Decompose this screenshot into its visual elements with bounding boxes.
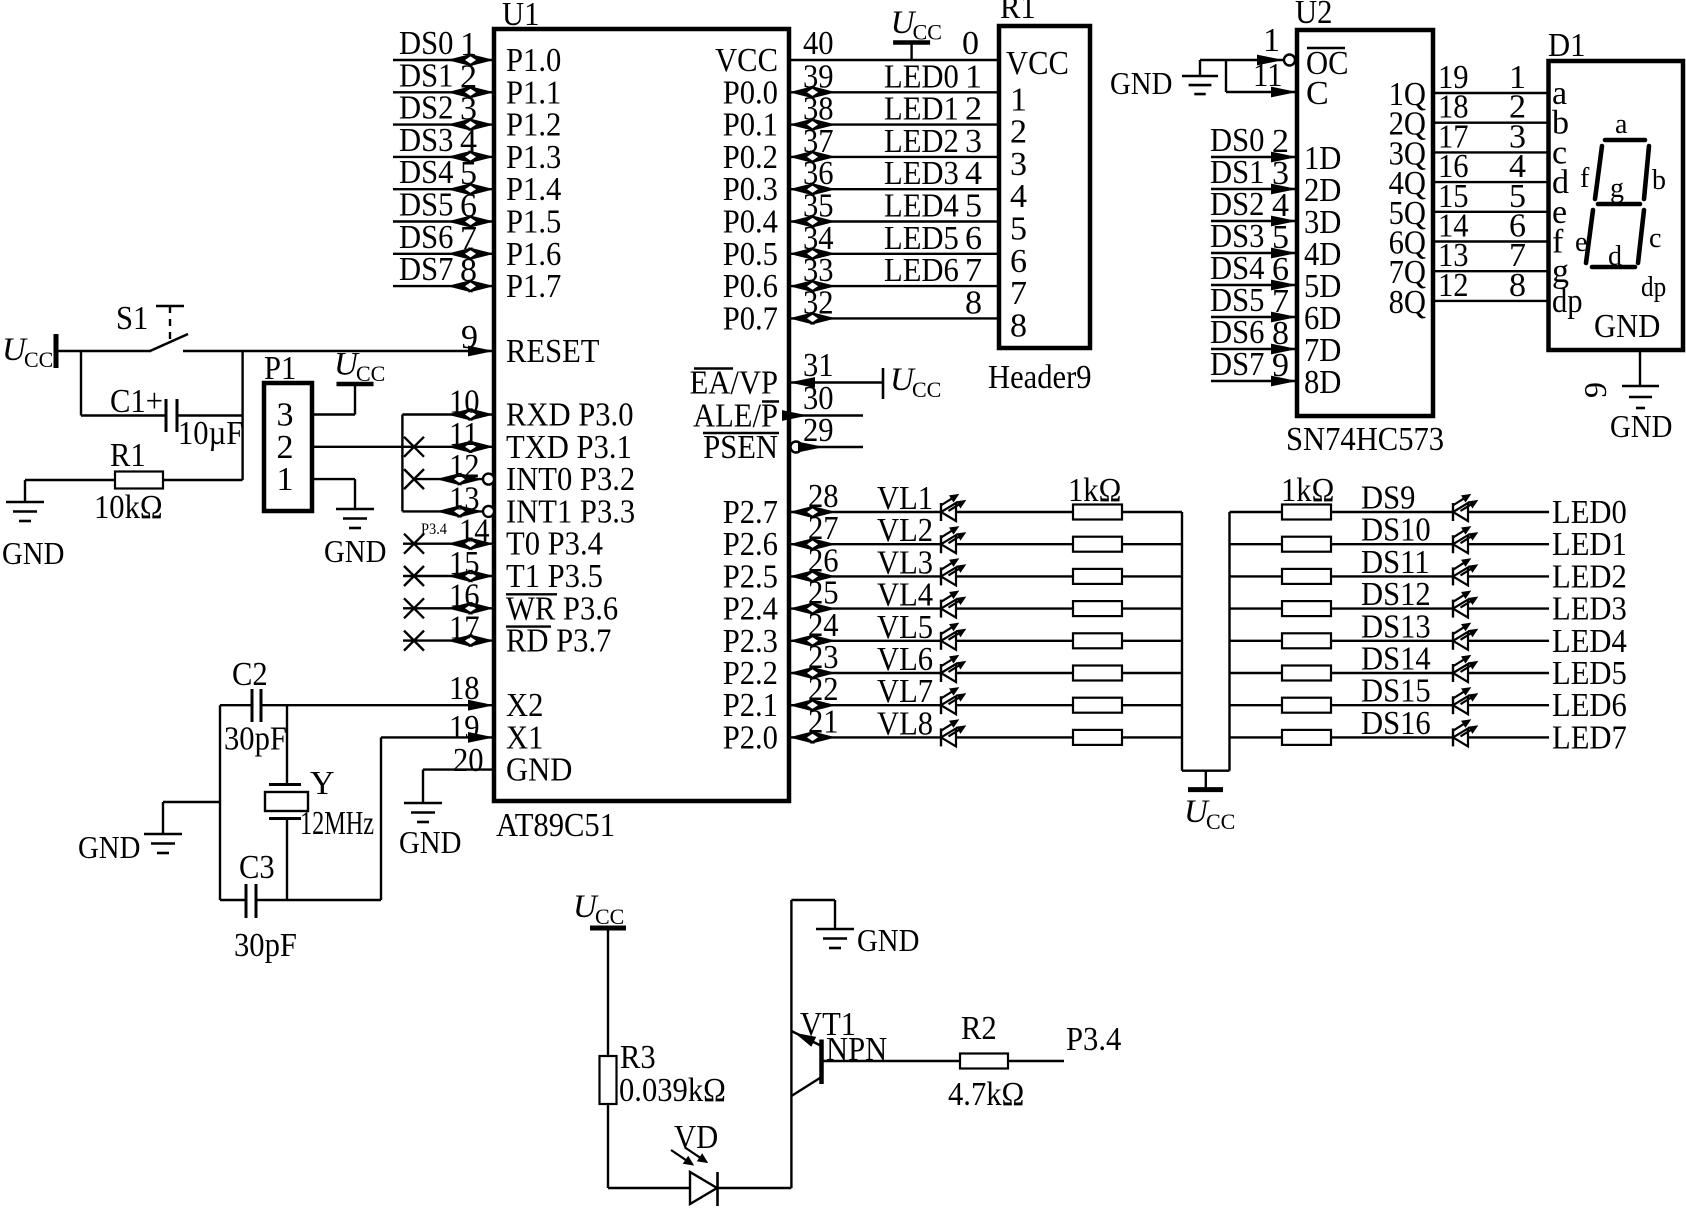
wire Ucc junction down to C1 bbox=[80, 351, 82, 416]
wire PSEN pin 29 bbox=[802, 446, 863, 448]
wire DS4 to U2 pin 6 bbox=[1211, 284, 1297, 286]
wire DS6 to U1 pin 7 bbox=[393, 253, 494, 255]
ground symbol D1 bbox=[1622, 385, 1659, 388]
arrow into 2D bbox=[1271, 184, 1297, 195]
wire right bus vertical bbox=[1228, 512, 1230, 771]
svg-text:GND: GND bbox=[2, 535, 64, 571]
wire INT1 P3.3 pin 13 bbox=[402, 510, 483, 512]
wire right bus to resistor row 4 bbox=[1230, 607, 1284, 609]
wire switch to U1 RESET pin 9 bbox=[183, 350, 494, 352]
LED DS14 bbox=[1452, 664, 1454, 682]
wire DS2 to U2 pin 4 bbox=[1211, 220, 1297, 222]
wire P2.5 pin 26 to VL3 bbox=[789, 575, 941, 577]
resistor 1k row 4 right bbox=[1282, 601, 1331, 616]
no-connect X pin 17 bbox=[404, 631, 424, 651]
wire VL3 to resistor bbox=[956, 575, 1073, 577]
bidirectional arrow pin 38 bbox=[789, 118, 815, 131]
wire ground stub crystal bbox=[163, 801, 220, 803]
resistor 1k row 1 right bbox=[1282, 505, 1331, 520]
wire DS7 to U1 pin 8 bbox=[393, 285, 494, 287]
svg-text:17: 17 bbox=[449, 610, 480, 647]
svg-text:VL8: VL8 bbox=[877, 705, 933, 742]
power symbol Ucc EA bar bbox=[882, 368, 885, 399]
no-connect X pin 15 bbox=[404, 566, 424, 586]
LED VL1 bbox=[940, 503, 942, 521]
svg-text:8: 8 bbox=[460, 252, 477, 289]
wire D1 GND pin 9 bbox=[1639, 350, 1641, 385]
svg-text:GND: GND bbox=[399, 824, 461, 860]
bidirectional arrow pin 5 bbox=[447, 183, 473, 196]
LED VL6 bbox=[940, 664, 942, 682]
svg-text:P3.4: P3.4 bbox=[421, 521, 447, 538]
wire Ucc to switch S1 bbox=[56, 350, 151, 352]
crystal Y box bbox=[265, 792, 308, 811]
wire C2 row to X2 pin 18 bbox=[220, 704, 252, 706]
bidirectional arrow pin 3 bbox=[447, 118, 473, 131]
svg-text:18: 18 bbox=[449, 670, 480, 707]
wire DS13 to LED4 net bbox=[1468, 640, 1549, 642]
wire EA/VP pin 31 bbox=[789, 381, 883, 383]
svg-text:VCC: VCC bbox=[1006, 45, 1069, 82]
svg-text:R1: R1 bbox=[1000, 0, 1036, 26]
wire P2.0 pin 21 to VL8 bbox=[789, 736, 941, 738]
wire P2.4 pin 25 to VL4 bbox=[789, 607, 941, 609]
bidirectional arrow pin 4 bbox=[447, 150, 473, 163]
bubble INT1 bbox=[483, 506, 494, 517]
wire P2.3 pin 24 to VL5 bbox=[789, 640, 941, 642]
wire DS9 to LED0 net bbox=[1468, 511, 1549, 513]
wire resistor to DS12 bbox=[1330, 607, 1453, 609]
wire DS1 to U2 pin 3 bbox=[1211, 188, 1297, 190]
bidirectional arrow pin 23 bbox=[789, 667, 815, 680]
svg-text:GND: GND bbox=[1610, 408, 1672, 444]
LED VL3 bbox=[940, 567, 942, 585]
svg-text:P1: P1 bbox=[264, 350, 296, 387]
svg-text:AT89C51: AT89C51 bbox=[496, 807, 615, 844]
svg-text:8: 8 bbox=[1509, 267, 1526, 304]
bubble INT0 bbox=[483, 474, 494, 485]
wire right bus to resistor row 3 bbox=[1230, 575, 1284, 577]
bidirectional arrow pin 13 bbox=[436, 505, 462, 518]
LED DS15 bbox=[1452, 696, 1454, 714]
wire resistor to DS10 bbox=[1330, 543, 1453, 545]
svg-text:GND: GND bbox=[1110, 65, 1172, 101]
header R1 box bbox=[999, 26, 1090, 348]
wire GND to OC pin 1 bbox=[1199, 60, 1201, 76]
bidirectional arrow pin 27 bbox=[789, 538, 815, 551]
resistor R1 box bbox=[115, 472, 163, 489]
LED DS16 bbox=[1452, 728, 1454, 746]
bidirectional arrow pin 10 bbox=[447, 408, 473, 421]
wire resistor to DS16 bbox=[1330, 736, 1453, 738]
svg-text:g: g bbox=[1610, 173, 1624, 204]
wire right bus X1 to C3 bbox=[380, 737, 382, 900]
bidirectional arrow pin 33 bbox=[789, 280, 815, 293]
wire base to R2 bbox=[822, 1060, 961, 1062]
wire resistor to left bus bbox=[1122, 704, 1182, 706]
wire VL1 to resistor bbox=[956, 511, 1073, 513]
power symbol Ucc reset bbox=[54, 334, 59, 368]
ground symbol VT1 emitter bbox=[816, 928, 854, 931]
wire P0.0 pin 39 to header bbox=[789, 91, 999, 93]
power symbol Ucc LED buses bbox=[1205, 771, 1207, 788]
bidirectional arrow pin 39 bbox=[789, 86, 815, 99]
svg-text:RD P3.7: RD P3.7 bbox=[506, 623, 611, 660]
capacitor C3 plates bbox=[245, 884, 248, 918]
resistor 1k row 6 right bbox=[1282, 666, 1331, 681]
arrow into 4D bbox=[1271, 248, 1297, 259]
arrow into 7D bbox=[1271, 344, 1297, 355]
LED DS10 bbox=[1452, 535, 1454, 553]
svg-text:CC: CC bbox=[1206, 809, 1235, 834]
wire P2.6 pin 27 to VL2 bbox=[789, 543, 941, 545]
seven segment graphic bbox=[1586, 140, 1649, 267]
bidirectional arrow pin 7 bbox=[447, 247, 473, 260]
svg-text:NPN: NPN bbox=[826, 1031, 887, 1068]
VD light arrows bbox=[671, 1150, 686, 1160]
wire right bus to resistor row 1 bbox=[1230, 511, 1284, 513]
svg-text:10kΩ: 10kΩ bbox=[94, 489, 163, 526]
bidirectional arrow pin 17 bbox=[447, 634, 473, 647]
wire DS5 to U2 pin 7 bbox=[1211, 316, 1297, 318]
arrow into 1D bbox=[1271, 152, 1297, 163]
bidirectional arrow pin 16 bbox=[447, 602, 473, 615]
wire DS10 to LED1 net bbox=[1468, 543, 1549, 545]
svg-text:PSEN: PSEN bbox=[703, 429, 778, 466]
wire resistor to left bus bbox=[1122, 575, 1182, 577]
display D1 box bbox=[1549, 61, 1684, 350]
svg-text:8: 8 bbox=[1010, 307, 1027, 344]
power symbol Ucc P1 bbox=[337, 382, 374, 387]
svg-text:Header9: Header9 bbox=[988, 359, 1092, 396]
wire VCC pin 40 to header bbox=[789, 59, 999, 61]
no-connect X pin 11 bbox=[404, 437, 424, 457]
wire DS1 to U1 pin 2 bbox=[393, 91, 494, 93]
wire INT0 P3.2 pin 12 bbox=[414, 478, 483, 480]
resistor 1k row 2 left bbox=[1073, 537, 1122, 552]
bidirectional arrow pin 8 bbox=[447, 280, 473, 293]
svg-text:U2: U2 bbox=[1295, 0, 1332, 31]
wire right bus to resistor row 8 bbox=[1230, 736, 1284, 738]
wire P0.7 pin 32 to header bbox=[789, 317, 999, 319]
wire emitter top to ground bbox=[791, 899, 835, 901]
wire VL7 to resistor bbox=[956, 704, 1073, 706]
bidirectional arrow pin 11 bbox=[447, 440, 473, 453]
wire DS0 to U2 pin 2 bbox=[1211, 156, 1297, 158]
wire X1 pin 19 bbox=[381, 736, 494, 738]
latch U2 SN74HC573 box bbox=[1297, 30, 1433, 416]
wire DS3 to U2 pin 5 bbox=[1211, 252, 1297, 254]
wire 5Q to D1 segment e bbox=[1433, 211, 1549, 213]
wire resistor to left bus bbox=[1122, 640, 1182, 642]
svg-text:DS7: DS7 bbox=[399, 251, 453, 288]
wire right bus to resistor row 2 bbox=[1230, 543, 1284, 545]
power symbol Ucc bottom bbox=[590, 926, 626, 931]
wire P2.7 pin 28 to VL1 bbox=[789, 511, 941, 513]
svg-text:P2.0: P2.0 bbox=[723, 719, 778, 756]
bidirectional arrow pin 28 bbox=[789, 506, 815, 519]
wire R1 right to junction bbox=[163, 479, 243, 481]
diode VD bbox=[690, 1172, 717, 1204]
connector P1 box bbox=[264, 383, 312, 511]
wire DS7 to U2 pin 9 bbox=[1211, 380, 1297, 382]
svg-text:P3.4: P3.4 bbox=[1066, 1021, 1121, 1058]
wire VL2 to resistor bbox=[956, 543, 1073, 545]
wire DS5 to U1 pin 6 bbox=[393, 220, 494, 222]
wire bus bottom join bbox=[1182, 770, 1230, 772]
wire R1 left from ground bbox=[25, 479, 115, 481]
wire left bus vertical bbox=[1181, 512, 1183, 771]
bidirectional arrow pin 32 bbox=[789, 312, 815, 325]
ground symbol left of R1 bbox=[24, 480, 26, 502]
ground symbol P1 bbox=[336, 508, 374, 511]
svg-text:12MHz: 12MHz bbox=[300, 805, 374, 842]
wire T1 P3.5 pin 15 bbox=[403, 575, 494, 577]
bidirectional arrow pin 14 bbox=[447, 537, 473, 550]
arrow into 6D bbox=[1271, 312, 1297, 323]
svg-text:VD: VD bbox=[674, 1119, 718, 1156]
svg-text:21: 21 bbox=[808, 703, 839, 740]
wire DS0 to U1 pin 1 bbox=[393, 59, 494, 61]
bidirectional arrow pin 26 bbox=[789, 570, 815, 583]
bidirectional arrow pin 1 bbox=[447, 54, 473, 67]
wire RXD P3.0 pin 10 bbox=[402, 413, 494, 415]
wire P1 pin2 to TXD bbox=[312, 446, 402, 448]
svg-text:9: 9 bbox=[1577, 382, 1613, 398]
wire Ucc to R3 bbox=[607, 928, 609, 1056]
arrow out PSEN bbox=[798, 442, 824, 453]
svg-text:EA/VP: EA/VP bbox=[690, 365, 778, 402]
svg-text:19: 19 bbox=[449, 709, 480, 746]
svg-text:8Q: 8Q bbox=[1389, 284, 1426, 321]
wire GND to C pin 11 bbox=[1225, 60, 1227, 92]
svg-text:GND: GND bbox=[324, 533, 386, 569]
svg-text:0: 0 bbox=[962, 25, 979, 62]
svg-text:R2: R2 bbox=[961, 1010, 997, 1047]
wire 6Q to D1 segment f bbox=[1433, 240, 1549, 242]
svg-text:P0.7: P0.7 bbox=[723, 300, 778, 337]
wire DS14 to LED5 net bbox=[1468, 672, 1549, 674]
wire resistor to left bus bbox=[1122, 736, 1182, 738]
wire DS4 to U1 pin 5 bbox=[393, 188, 494, 190]
bidirectional arrow pin 36 bbox=[789, 183, 815, 196]
wire 3Q to D1 segment c bbox=[1433, 151, 1549, 153]
wire C1 right to junction bbox=[177, 414, 243, 416]
arrow into EA bbox=[789, 377, 815, 388]
resistor 1k row 8 left bbox=[1073, 730, 1122, 745]
wire P2.2 pin 23 to VL6 bbox=[789, 672, 941, 674]
ground symbol crystal bbox=[144, 833, 182, 836]
ground symbol U2 control bbox=[1182, 75, 1218, 78]
resistor 1k row 5 left bbox=[1073, 633, 1122, 648]
wire DS11 to LED2 net bbox=[1468, 575, 1549, 577]
svg-text:SN74HC573: SN74HC573 bbox=[1286, 421, 1444, 458]
svg-text:d: d bbox=[1608, 241, 1622, 272]
wire P1 pin1 to ground bbox=[312, 478, 355, 480]
svg-text:D1: D1 bbox=[1548, 27, 1585, 64]
svg-text:1: 1 bbox=[277, 461, 294, 498]
svg-text:DS7: DS7 bbox=[1210, 346, 1264, 383]
resistor 1k row 1 left bbox=[1073, 505, 1122, 520]
wire DS3 to U1 pin 4 bbox=[393, 156, 494, 158]
wire right bus to resistor row 6 bbox=[1230, 672, 1284, 674]
bidirectional arrow pin 25 bbox=[789, 602, 815, 615]
wire P0.6 pin 33 to header bbox=[789, 285, 999, 287]
resistor R2 box bbox=[960, 1054, 1008, 1069]
resistor 1k row 3 right bbox=[1282, 569, 1331, 584]
resistor 1k row 7 left bbox=[1073, 698, 1122, 713]
resistor 1k row 4 left bbox=[1073, 601, 1122, 616]
svg-text:C2: C2 bbox=[232, 656, 268, 693]
wire resistor to DS11 bbox=[1330, 575, 1453, 577]
wire resistor to DS13 bbox=[1330, 640, 1453, 642]
svg-text:9: 9 bbox=[1272, 347, 1289, 384]
svg-text:30pF: 30pF bbox=[234, 927, 297, 964]
resistor 1k row 6 left bbox=[1073, 666, 1122, 681]
svg-text:8: 8 bbox=[965, 284, 982, 321]
svg-text:dp: dp bbox=[1552, 283, 1583, 320]
wire 7Q to D1 segment g bbox=[1433, 270, 1549, 272]
svg-text:32: 32 bbox=[803, 284, 834, 321]
wire resistor to left bus bbox=[1122, 511, 1182, 513]
wire C3 row bbox=[220, 899, 246, 901]
wire RD P3.7 pin 17 bbox=[403, 639, 494, 641]
wire VL8 to resistor bbox=[956, 736, 1073, 738]
wire P0.2 pin 37 to header bbox=[789, 156, 999, 158]
svg-text:e: e bbox=[1575, 227, 1587, 258]
svg-text:9: 9 bbox=[461, 319, 478, 356]
svg-text:C1+: C1+ bbox=[110, 383, 163, 420]
arrow out ALE bbox=[782, 410, 808, 421]
svg-text:4.7kΩ: 4.7kΩ bbox=[948, 1076, 1024, 1113]
wire VL4 to resistor bbox=[956, 607, 1073, 609]
svg-text:GND: GND bbox=[506, 752, 572, 789]
LED VL5 bbox=[940, 632, 942, 650]
ground symbol pin 20 bbox=[404, 802, 442, 805]
transistor VT1 bbox=[819, 1040, 824, 1085]
svg-text:DS16: DS16 bbox=[1361, 705, 1431, 742]
arrow into C bbox=[1271, 87, 1297, 98]
LED VL7 bbox=[940, 696, 942, 714]
wire TXD P3.1 pin 11 bbox=[402, 446, 494, 448]
svg-text:GND: GND bbox=[78, 829, 140, 865]
wire resistor to DS9 bbox=[1330, 511, 1453, 513]
wire WR P3.6 pin 16 bbox=[403, 607, 494, 609]
svg-text:P1.7: P1.7 bbox=[506, 268, 561, 305]
resistor 1k row 5 right bbox=[1282, 633, 1331, 648]
no-connect X pin 12 bbox=[404, 469, 424, 489]
arrow into RESET pin bbox=[468, 346, 494, 357]
wire P2.1 pin 22 to VL7 bbox=[789, 704, 941, 706]
bubble PSEN bbox=[791, 442, 802, 453]
bidirectional arrow pin 6 bbox=[447, 215, 473, 228]
svg-text:0.039kΩ: 0.039kΩ bbox=[619, 1072, 726, 1109]
wire 4Q to D1 segment d bbox=[1433, 181, 1549, 183]
wire resistor to left bus bbox=[1122, 672, 1182, 674]
resistor R3 box bbox=[600, 1056, 617, 1104]
svg-text:GND: GND bbox=[857, 922, 919, 958]
svg-text:1kΩ: 1kΩ bbox=[1068, 472, 1121, 509]
svg-text:LED7: LED7 bbox=[1552, 719, 1627, 756]
wire VL6 to resistor bbox=[956, 672, 1073, 674]
resistor 1k row 3 left bbox=[1073, 569, 1122, 584]
microcontroller U1 AT89C51 box bbox=[494, 29, 789, 801]
wire DS15 to LED6 net bbox=[1468, 704, 1549, 706]
arrow into OC bbox=[1257, 55, 1283, 66]
svg-text:CC: CC bbox=[913, 20, 942, 45]
wire P0.3 pin 36 to header bbox=[789, 188, 999, 190]
svg-text:RESET: RESET bbox=[506, 333, 600, 370]
arrow into X2 bbox=[468, 700, 494, 711]
svg-text:11: 11 bbox=[1253, 57, 1283, 94]
svg-text:8D: 8D bbox=[1304, 364, 1341, 401]
bidirectional arrow pin 22 bbox=[789, 699, 815, 712]
wire DS16 to LED7 net bbox=[1468, 736, 1549, 738]
svg-text:Y: Y bbox=[310, 765, 335, 802]
svg-text:20: 20 bbox=[453, 742, 484, 779]
svg-text:c: c bbox=[1649, 223, 1661, 254]
wire DS6 to U2 pin 8 bbox=[1211, 348, 1297, 350]
wire resistor to left bus bbox=[1122, 607, 1182, 609]
svg-text:U1: U1 bbox=[502, 0, 539, 33]
capacitor C2 plates bbox=[251, 689, 254, 722]
wire R2 to P3.4 bbox=[1008, 1060, 1064, 1062]
wire VL5 to resistor bbox=[956, 640, 1073, 642]
wire DS2 to U1 pin 3 bbox=[393, 123, 494, 125]
svg-text:29: 29 bbox=[803, 412, 834, 449]
wire P0.5 pin 34 to header bbox=[789, 253, 999, 255]
svg-text:f: f bbox=[1580, 163, 1590, 194]
svg-text:C: C bbox=[1306, 75, 1329, 112]
bidirectional arrow pin 21 bbox=[789, 731, 815, 744]
no-connect X pin 16 bbox=[404, 598, 424, 618]
bidirectional arrow pin 34 bbox=[789, 247, 815, 260]
bidirectional arrow pin 12 bbox=[436, 473, 462, 486]
wire resistor to left bus bbox=[1122, 543, 1182, 545]
wire 8Q to D1 segment dp bbox=[1433, 300, 1549, 302]
arrow into 5D bbox=[1271, 280, 1297, 291]
wire crystal top bbox=[286, 705, 288, 784]
bidirectional arrow pin 2 bbox=[447, 86, 473, 99]
wire resistor to DS14 bbox=[1330, 672, 1453, 674]
svg-text:R3: R3 bbox=[620, 1039, 656, 1076]
LED DS12 bbox=[1452, 600, 1454, 618]
crystal Y plates bbox=[269, 783, 301, 786]
wire T0 P3.4 pin 14 bbox=[403, 543, 494, 545]
wire resistor to DS15 bbox=[1330, 704, 1453, 706]
svg-text:31: 31 bbox=[803, 347, 834, 384]
wire right bus to resistor row 5 bbox=[1230, 640, 1284, 642]
svg-text:dp: dp bbox=[1641, 272, 1666, 303]
svg-text:40: 40 bbox=[803, 25, 834, 62]
svg-text:LED6: LED6 bbox=[884, 252, 959, 289]
resistor 1k row 7 right bbox=[1282, 698, 1331, 713]
resistor 1k row 8 right bbox=[1282, 730, 1331, 745]
wire ALE/P pin 30 bbox=[789, 414, 863, 416]
svg-text:CC: CC bbox=[595, 904, 624, 929]
bidirectional arrow pin 15 bbox=[447, 570, 473, 583]
wire DS12 to LED3 net bbox=[1468, 607, 1549, 609]
wire GND pin 20 bbox=[423, 768, 494, 770]
svg-text:CC: CC bbox=[912, 377, 941, 402]
svg-text:CC: CC bbox=[356, 361, 385, 386]
arrow into 3D bbox=[1271, 216, 1297, 227]
LED VL8 bbox=[940, 728, 942, 746]
wire 2Q to D1 segment b bbox=[1433, 121, 1549, 123]
capacitor C1 plates bbox=[165, 399, 168, 432]
svg-text:C3: C3 bbox=[239, 849, 275, 886]
svg-text:S1: S1 bbox=[116, 300, 148, 337]
